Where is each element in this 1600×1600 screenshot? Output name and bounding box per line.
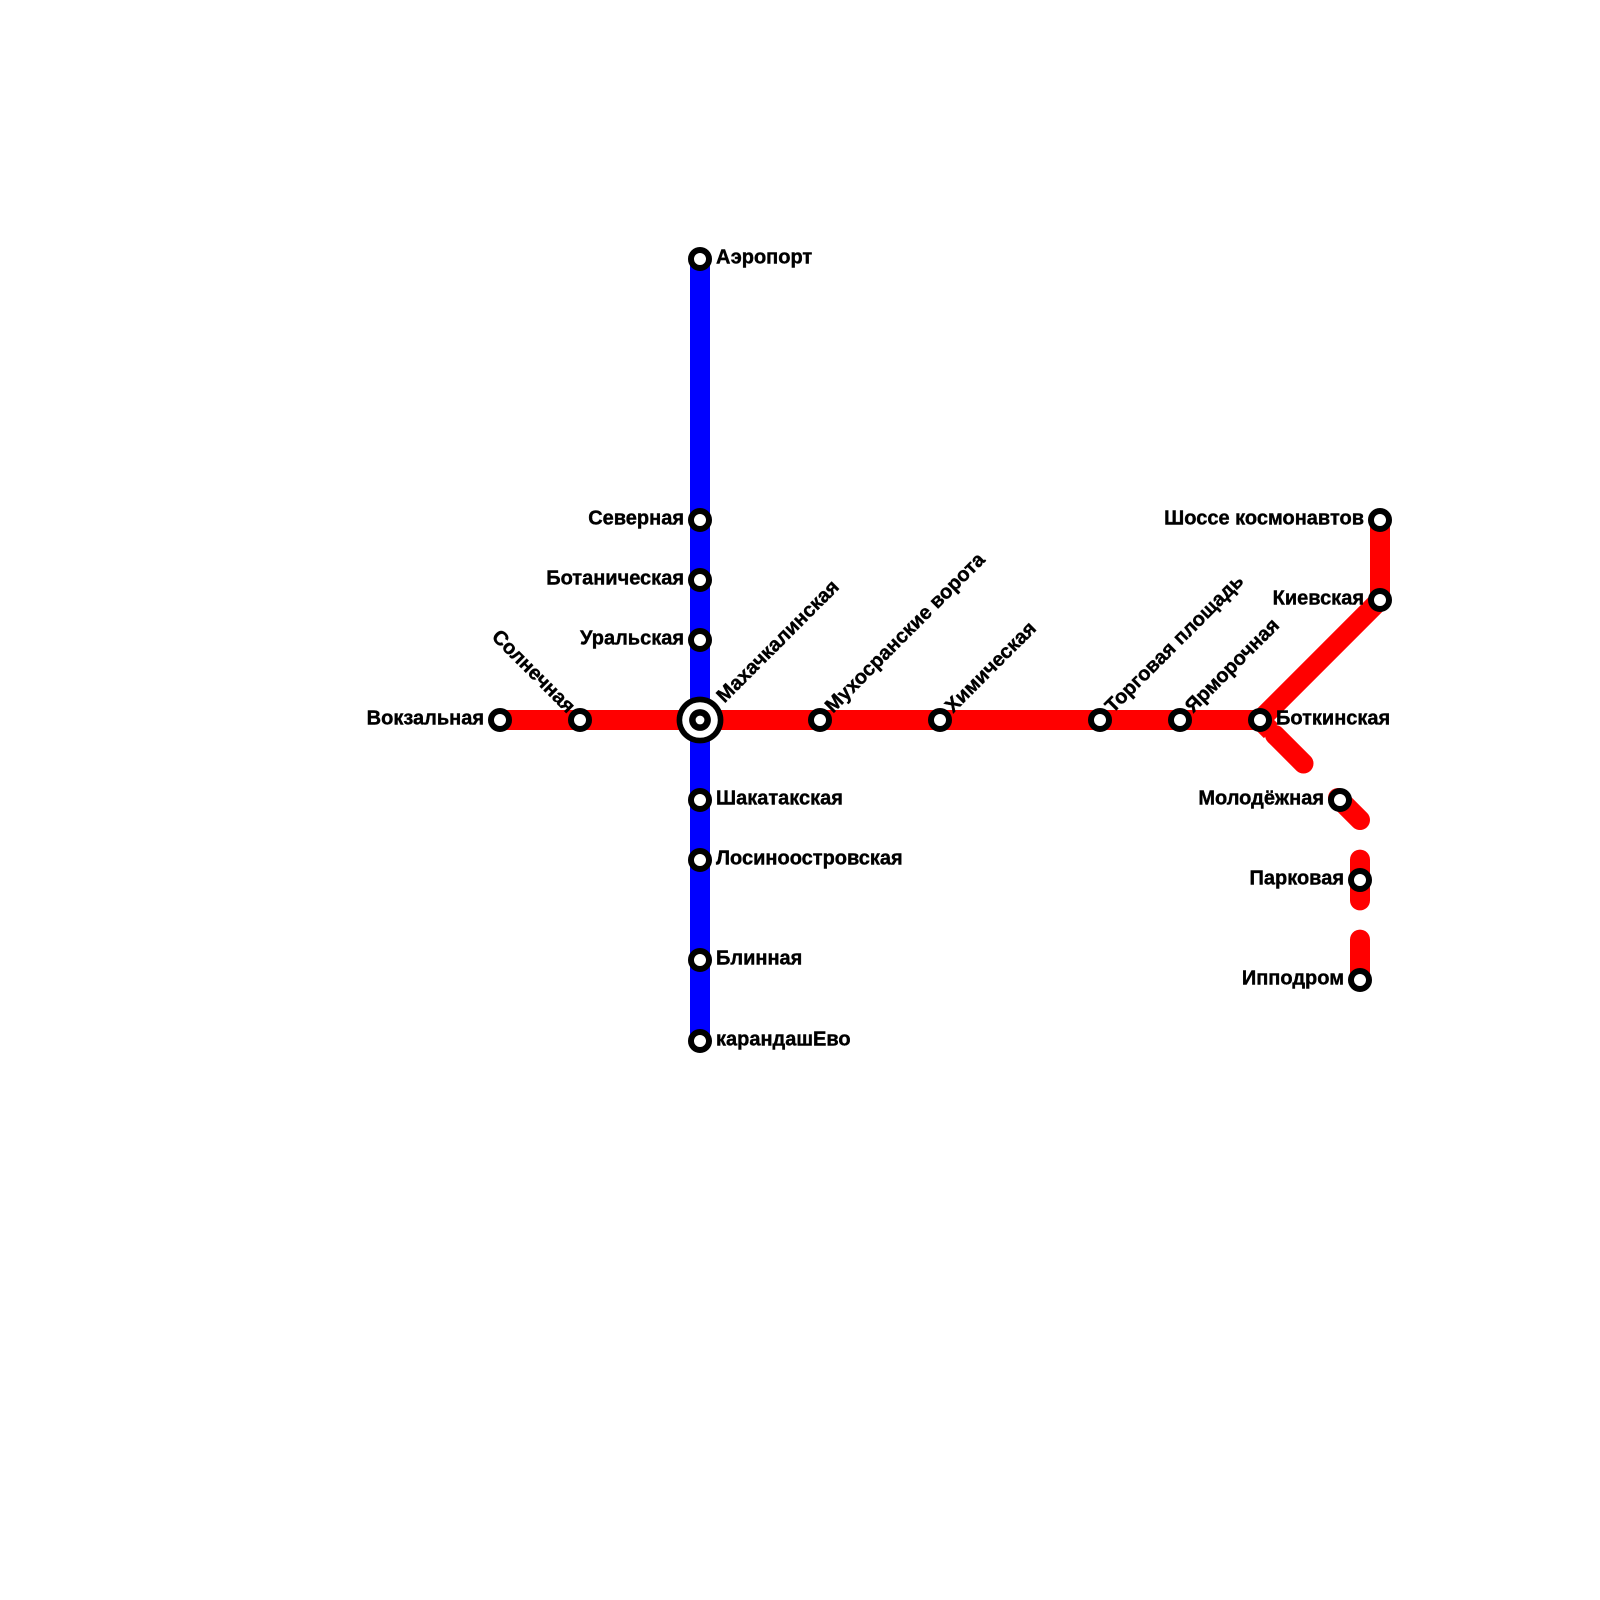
svg-text:Северная: Северная — [588, 508, 684, 530]
svg-text:Молодёжная: Молодёжная — [1198, 788, 1324, 810]
svg-text:Уральская: Уральская — [580, 628, 684, 650]
svg-text:Парковая: Парковая — [1249, 868, 1344, 890]
svg-text:Вокзальная: Вокзальная — [367, 708, 484, 730]
svg-text:Аэропорт: Аэропорт — [716, 247, 812, 269]
svg-text:Боткинская: Боткинская — [1276, 708, 1390, 730]
svg-text:Киевская: Киевская — [1273, 588, 1364, 610]
svg-text:карандашЕво: карандашЕво — [716, 1029, 851, 1051]
svg-text:Шакатакская: Шакатакская — [716, 788, 843, 810]
svg-text:Шоссе космонавтов: Шоссе космонавтов — [1164, 508, 1364, 530]
svg-text:Ипподром: Ипподром — [1242, 968, 1344, 990]
svg-text:Ботаническая: Ботаническая — [546, 568, 684, 590]
svg-text:Лосиноостровская: Лосиноостровская — [716, 848, 903, 870]
svg-text:Блинная: Блинная — [716, 948, 802, 970]
